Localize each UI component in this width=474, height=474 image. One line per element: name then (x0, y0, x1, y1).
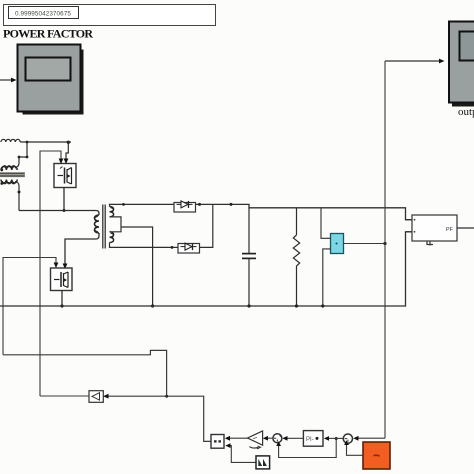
svg-text:PI-: PI- (306, 437, 314, 443)
wire reference constant into sum3 bottom (344, 440, 363, 455)
carrier generator block (sawtooth) (256, 456, 270, 469)
wire secondary2 bottom to diode D2 (110, 243, 179, 249)
label POWER FACTOR (3, 27, 93, 41)
wire D2 output up to DC top bus (200, 204, 213, 247)
main transformer secondary 1 (110, 207, 114, 217)
svg-text:output: output (458, 106, 474, 118)
wire PF block output to edge (457, 227, 474, 229)
label output voltage (458, 106, 474, 118)
wire sum3 output into PI (324, 436, 344, 441)
power factor measurement block (406, 215, 457, 246)
wire gain inverter output to M1 gate bus (40, 395, 89, 397)
wire feedback vertical (Vout signal) (384, 61, 386, 438)
diode D1 block (174, 201, 196, 212)
svg-text:0.99995042370675: 0.99995042370675 (15, 11, 71, 18)
wire into Scope1 (0, 78, 17, 83)
wire M1 source down to primary-top node (63, 188, 66, 213)
wire into Scope2 (385, 59, 445, 64)
gain block G2 (triangle) (248, 431, 263, 449)
wire secondary1 top to diode D1 (110, 203, 175, 207)
voltage measurement block (cyan) (331, 234, 344, 254)
display Power Factor outer box (4, 5, 216, 26)
resistor R (load) (293, 208, 299, 308)
capacitor C (output filter) (242, 208, 256, 308)
wire PI output into sum2 (282, 436, 303, 441)
wire sum2 output into gain2 (263, 436, 273, 441)
wire PWM branch into inverter gain (103, 394, 167, 399)
wire voltage measurement - input from bottom bus (321, 249, 330, 308)
constant block (orange reference) (363, 442, 390, 469)
display Power Factor value field (9, 7, 79, 19)
PI controller block (303, 431, 323, 447)
wire primary top rail (19, 211, 99, 216)
wire feedback into sum3 right input (353, 436, 385, 441)
wire DC bottom bus (0, 232, 412, 306)
svg-text:PF: PF (446, 227, 454, 233)
wire M2 source to bottom bus (60, 291, 63, 308)
gain inverter block G1 (89, 391, 103, 403)
scope Scope2 (output voltage) (449, 22, 474, 107)
wire carrier into relational op lower input (225, 443, 256, 462)
sum block S2 (circle) (273, 434, 282, 443)
wire source-transformer top terminal to AC line (17, 141, 29, 167)
wire center tap return to bottom bus (121, 227, 154, 308)
MOSFET M1 block (54, 164, 76, 188)
relational operator block (PWM comparator) (211, 435, 224, 449)
main transformer core (103, 205, 105, 249)
wire center tap tie (110, 217, 122, 232)
wire source-transformer bottom terminal down (17, 182, 21, 211)
MOSFET M2 block (51, 268, 73, 291)
svg-text:POWER FACTOR: POWER FACTOR (3, 27, 93, 41)
wire voltage measurement + input from top bus (321, 208, 331, 239)
wire M1 drain from AC line (64, 142, 69, 164)
source transformer lower winding (1, 180, 17, 184)
wire DC top bus (196, 203, 413, 220)
sum block S3 (circle) (343, 434, 352, 443)
main transformer secondary 2 (110, 232, 114, 243)
source transformer (left element) upper winding (1, 166, 17, 170)
wire gain2 output into relational op upper input (225, 436, 248, 441)
inductor L (top-left AC line) (1, 139, 20, 142)
source transformer terminal dots (left) (0, 169, 3, 185)
wire PWM trunk from relational op to gates (3, 350, 211, 441)
wire from inductor to MOSFET1 drain column (20, 141, 71, 144)
wire gate loop into M1 (vertical control bus) (40, 151, 63, 396)
source transformer core bar (0, 172, 25, 177)
MOSFET M2 icon (54, 272, 68, 288)
main transformer primary winding (94, 215, 99, 233)
MOSFET M1 icon (58, 167, 72, 185)
wire voltage measurement output to feedback node (344, 242, 387, 245)
diode D2 block (178, 243, 200, 253)
wire gate2 into M2 (3, 258, 58, 355)
wire primary bottom rail to M2 drain (63, 233, 99, 269)
scope Scope1 (power factor scope) (18, 45, 84, 115)
wire feedforward loop into sum2 bottom (276, 437, 338, 458)
